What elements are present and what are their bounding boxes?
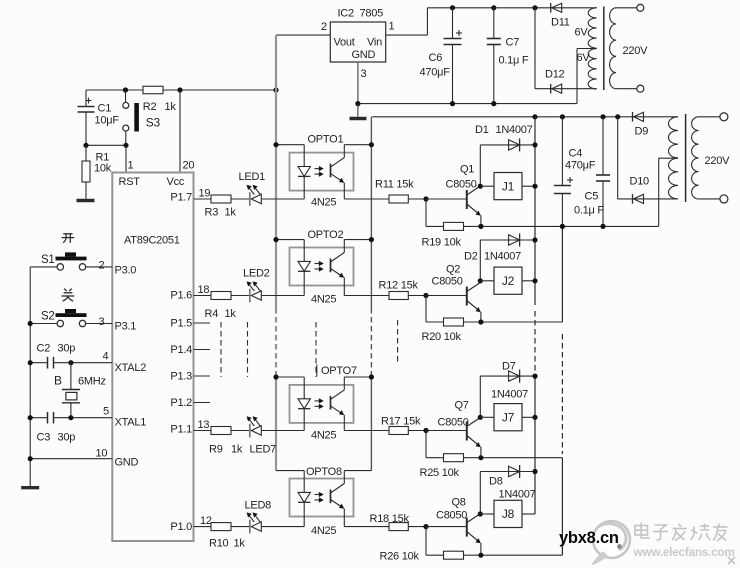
svg-text:Q2: Q2: [446, 264, 460, 276]
wire GND pin 10: [28, 448, 113, 462]
LED LED2: [243, 268, 270, 303]
svg-text:C8050: C8050: [438, 417, 469, 429]
svg-text:D1: D1: [475, 124, 489, 136]
svg-text:D7: D7: [502, 361, 516, 373]
pin stub P1.2: [194, 402, 211, 404]
wire Q7 emitter rail: [426, 431, 562, 458]
resistor R10: [209, 523, 245, 550]
svg-text:C7: C7: [506, 37, 520, 49]
svg-text:1: 1: [389, 21, 395, 33]
node D11-D12 cathode junction: [532, 5, 537, 10]
svg-text:RST: RST: [119, 176, 141, 188]
svg-text:C5: C5: [585, 191, 599, 203]
svg-text:C6: C6: [429, 52, 443, 64]
wire relay supply bus x535: [534, 117, 536, 514]
svg-text:R11 15k: R11 15k: [375, 179, 414, 191]
svg-text:6V: 6V: [577, 52, 591, 64]
svg-text:J1: J1: [502, 179, 515, 193]
resistor R19 10k: [422, 222, 464, 248]
relay J1: [480, 173, 535, 200]
svg-text:Vout: Vout: [334, 37, 355, 49]
svg-text:GND: GND: [352, 49, 376, 61]
transistor Q2 C8050: [426, 264, 481, 323]
svg-text:1: 1: [128, 160, 134, 172]
wire D12 cathode riser: [534, 8, 536, 89]
LED LED1: [239, 171, 266, 206]
svg-text:P1.2: P1.2: [170, 397, 192, 409]
relay J8: [480, 500, 535, 527]
svg-text:S1: S1: [41, 254, 55, 266]
svg-text:C8050: C8050: [446, 179, 477, 191]
svg-text:10: 10: [96, 448, 108, 460]
svg-text:220V: 220V: [705, 155, 731, 167]
svg-text:Q8: Q8: [452, 497, 466, 509]
svg-text:R10: R10: [209, 538, 229, 550]
svg-text:18: 18: [198, 284, 210, 296]
node S2 junction: [28, 321, 33, 326]
svg-text:C3: C3: [37, 432, 51, 444]
svg-text:10k: 10k: [94, 163, 112, 175]
transformer T1 core: [603, 7, 605, 91]
switch S3: [123, 90, 161, 145]
svg-text:LED1: LED1: [239, 171, 266, 183]
svg-text:P1.5: P1.5: [170, 318, 192, 330]
svg-text:R3: R3: [205, 207, 219, 219]
svg-text:4N25: 4N25: [311, 525, 336, 537]
capacitor C4: [554, 117, 596, 227]
capacitor C2: [28, 343, 113, 369]
svg-text:LED2: LED2: [243, 268, 270, 280]
relay J7: [480, 404, 535, 431]
svg-text:LED7: LED7: [250, 444, 277, 456]
optocoupler OPTO8 4N25: [276, 466, 371, 537]
diode D8 1N4007: [480, 465, 535, 501]
node D7 cathode: [532, 374, 537, 379]
transformer T1 secondary 6V windings: [575, 8, 597, 89]
svg-text:ybx8.cn: ybx8.cn: [559, 529, 619, 547]
resistor R26 10k: [380, 551, 464, 563]
svg-text:1k: 1k: [234, 538, 246, 550]
svg-text:GND: GND: [115, 457, 139, 469]
LED LED7: [247, 417, 276, 456]
svg-text:C8050: C8050: [436, 510, 467, 522]
capacitor C6: [420, 8, 463, 104]
capacitor C3: [28, 406, 113, 444]
svg-text:3: 3: [99, 316, 105, 328]
dashed omitted-channel lines: [221, 320, 398, 377]
label guan (close) character: [62, 289, 75, 302]
optocoupler OPTO2 4N25: [273, 229, 374, 306]
svg-text:20: 20: [183, 160, 195, 172]
wire opto7 emitter to R17: [344, 430, 389, 432]
node rail-RST junction: [123, 87, 128, 92]
wire +12V relay rail: [372, 116, 678, 118]
resistor R18 15k: [370, 513, 427, 531]
relay J2: [480, 267, 535, 294]
pin stub P1.3: [194, 375, 211, 377]
node D1 cathode: [532, 142, 537, 147]
wire +5V opto bus (left): [275, 145, 277, 471]
svg-text:R25 10k: R25 10k: [420, 467, 460, 479]
pin stub P1.5: [194, 322, 211, 324]
node D2 cathode: [532, 237, 537, 242]
resistor R17 15k: [381, 416, 426, 435]
svg-text:2: 2: [99, 260, 105, 272]
diode D2 1N4007: [464, 234, 535, 263]
svg-text:R4: R4: [205, 308, 219, 320]
svg-text:P3.1: P3.1: [115, 321, 137, 333]
resistor R11 15k: [375, 179, 426, 204]
svg-text:P1.0: P1.0: [170, 521, 192, 533]
svg-text:19: 19: [199, 188, 211, 200]
node Q2 base: [423, 293, 428, 298]
capacitor C5: [574, 117, 610, 227]
wire Q8 emitter rail: [426, 527, 562, 556]
wire opto1 emitter to R11: [344, 198, 389, 200]
node rail-5V bus junction: [273, 87, 278, 92]
svg-text:P1.6: P1.6: [170, 290, 192, 302]
watermark ybx8.cn: [559, 529, 619, 547]
svg-text:D11: D11: [551, 17, 570, 29]
wire MCU pin 19 net: [194, 188, 305, 200]
svg-text:1k: 1k: [225, 308, 237, 320]
watermark elecfans logo: [591, 521, 630, 566]
node C7 top: [491, 5, 496, 10]
wire +12V opto bus (right): [370, 117, 372, 471]
svg-text:P1.3: P1.3: [170, 371, 192, 383]
wire MCU pin 13 net: [194, 419, 305, 431]
wire Q1 collector riser: [479, 145, 481, 186]
resistor R4: [205, 292, 237, 321]
wire Q2 emitter rail: [426, 296, 562, 323]
svg-text:Q1: Q1: [460, 164, 474, 176]
svg-text:470μF: 470μF: [420, 67, 451, 79]
wire 7805 Vout pin 2: [276, 21, 330, 35]
svg-text:D10: D10: [630, 176, 650, 188]
svg-text:1N4007: 1N4007: [499, 489, 536, 501]
svg-text:www.elecfans.com: www.elecfans.com: [633, 545, 735, 559]
svg-text:D2: D2: [464, 251, 478, 263]
resistor R20 10k: [422, 318, 464, 343]
diode D11: [551, 3, 570, 29]
svg-text:1k: 1k: [225, 207, 237, 219]
crystal B 6MHz: [54, 363, 106, 418]
switch S2 (close): [30, 309, 112, 328]
node Q2 collector / J2 left: [478, 278, 483, 283]
IC2 7805 voltage regulator: [330, 8, 385, 63]
corner artifact: [728, 557, 735, 564]
svg-text:Q7: Q7: [455, 400, 469, 412]
svg-text:P3.0: P3.0: [115, 265, 137, 277]
svg-text:R26 10k: R26 10k: [380, 551, 420, 563]
svg-text:LED8: LED8: [245, 500, 272, 512]
wire +5V bus upper: [275, 35, 277, 145]
switch S1 (open): [30, 252, 112, 271]
label kai (open) character: [62, 234, 75, 243]
node Q7 emitter: [478, 455, 483, 460]
ground below R1: [77, 199, 95, 202]
optocoupler OPTO7 4N25: [273, 365, 374, 442]
svg-text:OPTO7: OPTO7: [321, 365, 357, 377]
svg-text:P1.1: P1.1: [170, 424, 192, 436]
svg-text:4: 4: [103, 351, 109, 363]
IC AT89C2051 U1: [112, 173, 193, 542]
svg-text:IC2: IC2: [338, 8, 355, 20]
node Q8 collector / J8 left: [478, 511, 483, 516]
wire RST pin 1: [126, 145, 134, 172]
svg-text:13: 13: [198, 419, 210, 431]
watermark www.elecfans.com: [633, 545, 735, 559]
svg-text:R19 10k: R19 10k: [422, 237, 462, 249]
wire Q7 collector riser: [479, 376, 481, 417]
resistor R1: [82, 145, 112, 198]
resistor R12 15k: [379, 280, 427, 300]
wire Vcc top rail: [86, 89, 276, 91]
svg-text:10μF: 10μF: [95, 115, 120, 127]
svg-text:1N4007: 1N4007: [491, 389, 528, 401]
node relay-bus top: [532, 114, 537, 119]
svg-text:Vcc: Vcc: [167, 176, 185, 188]
transistor Q8 C8050: [426, 497, 481, 556]
wire 7805 Vin pin 1: [386, 8, 428, 35]
svg-text:R2: R2: [143, 101, 157, 113]
node Q1 base: [423, 196, 428, 201]
wire Q2 collector riser: [479, 240, 481, 283]
svg-text:C8050: C8050: [432, 276, 463, 288]
svg-text:OPTO8: OPTO8: [306, 466, 342, 478]
svg-text:D12: D12: [545, 69, 565, 81]
svg-text:470μF: 470μF: [565, 160, 596, 172]
svg-text:1N4007: 1N4007: [496, 124, 533, 136]
node C4 top: [560, 114, 565, 119]
transformer T2 primary 220V winding: [692, 113, 731, 203]
wire relay ground rail: [426, 224, 659, 229]
svg-text:1k: 1k: [231, 444, 243, 456]
node C5 top: [600, 114, 605, 119]
svg-text:Vin: Vin: [367, 37, 382, 49]
svg-text:XTAL2: XTAL2: [115, 362, 147, 374]
svg-text:30p: 30p: [58, 432, 76, 444]
svg-text:R17 15k: R17 15k: [381, 416, 421, 428]
svg-text:4N25: 4N25: [311, 197, 336, 209]
node D8 cathode: [532, 469, 537, 474]
wire left rail: [29, 267, 31, 486]
svg-text:P1.4: P1.4: [170, 344, 192, 356]
wire Q8 collector riser: [479, 472, 481, 515]
svg-text:12: 12: [200, 515, 212, 527]
svg-text:7805: 7805: [360, 8, 384, 20]
resistor R3: [205, 195, 237, 219]
wire MCU pin 12 net: [194, 515, 305, 527]
diode D9: [633, 112, 649, 138]
wire 7805 GND pin 3: [358, 62, 367, 104]
transformer T1 primary 220V winding: [610, 4, 649, 92]
svg-text:1N4007: 1N4007: [484, 251, 521, 263]
svg-text:P1.7: P1.7: [170, 192, 192, 204]
optocoupler OPTO1 4N25: [273, 134, 374, 209]
svg-text:4N25: 4N25: [311, 430, 336, 442]
svg-text:D9: D9: [635, 126, 649, 138]
node J2 right: [532, 278, 537, 283]
transistor Q7 C8050: [426, 400, 481, 458]
svg-text:C4: C4: [569, 148, 583, 160]
node Q2 emitter: [478, 319, 483, 324]
LED LED8: [245, 500, 272, 534]
svg-text:1k: 1k: [165, 101, 177, 113]
node Q8 base: [423, 524, 428, 529]
wire opto2 emitter to R12: [344, 295, 389, 297]
svg-text:C2: C2: [37, 343, 51, 355]
svg-text:D8: D8: [489, 476, 503, 488]
pin stub P1.4: [194, 349, 211, 351]
svg-text:0.1μ F: 0.1μ F: [499, 55, 529, 67]
node Q7 collector / J7 left: [478, 415, 483, 420]
svg-text:R12 15k: R12 15k: [379, 280, 419, 292]
diode D10: [618, 117, 678, 204]
svg-text:R9: R9: [209, 444, 223, 456]
svg-text:OPTO2: OPTO2: [308, 229, 344, 241]
wire Vcc pin 20: [180, 90, 194, 173]
svg-text:220V: 220V: [623, 45, 649, 57]
svg-text:XTAL1: XTAL1: [115, 417, 147, 429]
svg-text:J8: J8: [502, 507, 515, 521]
node rail-Vcc pin20 junction: [177, 87, 182, 92]
svg-text:0.1μ F: 0.1μ F: [574, 205, 604, 217]
node Q1 emitter: [478, 224, 483, 229]
svg-text:OPTO1: OPTO1: [308, 134, 344, 146]
wire MCU pin 18 net: [194, 284, 305, 296]
capacitor C1: [78, 90, 120, 145]
svg-text:30p: 30p: [58, 343, 76, 355]
svg-text:2: 2: [321, 21, 327, 33]
svg-text:R18 15k: R18 15k: [370, 513, 410, 525]
node Q7 base: [423, 428, 428, 433]
node J1 right: [532, 184, 537, 189]
node C6 top: [450, 5, 455, 10]
resistor R9: [209, 427, 243, 456]
resistor R2: [143, 86, 177, 113]
capacitor C7: [487, 8, 529, 104]
svg-text:AT89C2051: AT89C2051: [124, 235, 180, 247]
wire rectified rail top: [427, 7, 596, 9]
wire RST node: [83, 143, 128, 148]
svg-text:C1: C1: [98, 103, 112, 115]
node D9-D10 junction: [615, 114, 620, 119]
wire Q1 base-emitter branch: [425, 199, 427, 226]
watermark elecfans chinese text: [635, 523, 728, 542]
diode D7 1N4007: [480, 361, 535, 401]
transformer T2 secondary winding: [659, 117, 678, 227]
svg-text:5: 5: [103, 406, 109, 418]
svg-text:S3: S3: [146, 116, 161, 130]
wire opto8 emitter to R18: [344, 526, 389, 528]
ground bottom-left: [21, 486, 39, 489]
diode D1 1N4007: [475, 124, 535, 151]
svg-text:4N25: 4N25: [311, 294, 336, 306]
diode D12: [535, 69, 597, 94]
svg-text:3: 3: [361, 68, 367, 80]
node Q8 emitter: [478, 553, 483, 558]
transformer T2 core: [685, 114, 687, 202]
svg-text:J2: J2: [502, 274, 515, 288]
ground below 7805: [350, 104, 367, 119]
transistor Q1 C8050: [426, 164, 481, 227]
svg-text:S2: S2: [41, 311, 55, 323]
svg-text:6V: 6V: [575, 27, 589, 39]
svg-text:R20 10k: R20 10k: [422, 331, 462, 343]
svg-text:J7: J7: [502, 411, 515, 425]
svg-text:B: B: [54, 374, 62, 388]
svg-text:6MHz: 6MHz: [78, 376, 106, 388]
resistor R25 10k: [420, 454, 464, 479]
node Q1 collector / J1 left: [478, 184, 483, 189]
wire ground rail (5V section): [355, 49, 596, 107]
wire relay ground bus x562: [561, 226, 563, 555]
node J7 right: [532, 415, 537, 420]
dash mark before OPTO7: [316, 365, 318, 377]
